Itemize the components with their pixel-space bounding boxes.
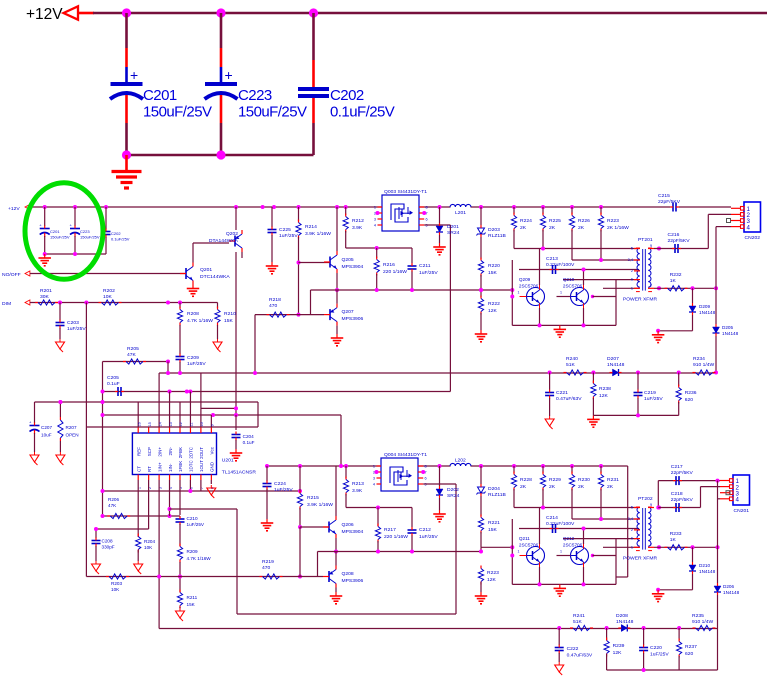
svg-text:R204: R204 [144,539,155,544]
svg-text:CT: CT [136,466,141,472]
svg-text:2K: 2K [607,484,614,490]
svg-text:150uF/25V: 150uF/25V [238,104,307,121]
svg-text:R205: R205 [127,346,139,352]
svg-text:22pF/5KV: 22pF/5KV [658,199,681,205]
svg-text:5: 5 [631,247,633,251]
svg-text:16: 16 [137,422,141,426]
svg-text:1OUT: 1OUT [199,460,204,472]
svg-text:620: 620 [685,651,694,657]
svg-text:Q211: Q211 [519,536,530,541]
svg-text:1: 1 [560,291,562,295]
svg-text:1DTC: 1DTC [189,460,194,472]
svg-text:D208: D208 [616,613,628,619]
svg-text:1: 1 [518,550,520,554]
svg-text:150uF/25V: 150uF/25V [50,235,70,240]
svg-text:1N4148: 1N4148 [699,310,716,315]
svg-text:3.9K: 3.9K [352,225,363,231]
svg-text:2: 2 [631,528,633,532]
svg-text:D207: D207 [607,356,619,362]
svg-text:DIM: DIM [2,301,11,307]
svg-text:6: 6 [425,477,427,481]
svg-text:RT: RT [147,466,152,472]
svg-text:10uF: 10uF [41,433,52,438]
svg-text:9: 9 [650,244,652,248]
svg-text:+: + [130,67,138,83]
svg-text:C219: C219 [644,390,656,396]
svg-text:9: 9 [650,503,652,507]
svg-text:7: 7 [650,284,652,288]
svg-text:1: 1 [560,550,562,554]
svg-text:R219: R219 [262,559,274,565]
svg-text:4.7K 1/16W: 4.7K 1/16W [187,318,213,324]
svg-text:R202: R202 [103,288,115,294]
svg-text:1N4148: 1N4148 [616,619,634,625]
svg-text:R215: R215 [307,495,319,501]
svg-text:D202: D202 [447,487,459,493]
svg-text:6: 6 [426,218,428,222]
svg-text:R231: R231 [607,477,619,483]
svg-text:1: 1 [374,206,376,210]
svg-text:R235: R235 [692,613,704,619]
svg-text:0.1uF/25V: 0.1uF/25V [111,237,130,242]
svg-text:NO/OFF: NO/OFF [2,272,21,278]
svg-text:D206: D206 [723,584,734,589]
svg-text:C217: C217 [671,464,683,470]
svg-text:R212: R212 [352,218,364,224]
svg-text:R218: R218 [269,297,281,303]
svg-text:1uF/25V: 1uF/25V [67,326,86,332]
svg-text:SCP: SCP [147,447,152,456]
svg-text:12K: 12K [488,308,498,314]
svg-text:R224: R224 [520,218,532,224]
svg-text:R238: R238 [599,386,611,392]
svg-text:C223: C223 [80,229,90,234]
svg-text:R214: R214 [305,224,317,230]
svg-text:R221: R221 [488,520,500,526]
svg-text:C208: C208 [102,539,113,544]
svg-text:R209: R209 [187,549,198,554]
svg-text:C205: C205 [107,375,119,381]
svg-text:MPS3906: MPS3906 [342,316,364,322]
svg-text:C215: C215 [658,193,670,199]
svg-text:12K: 12K [599,393,609,399]
svg-text:C202: C202 [330,87,364,104]
svg-text:1IN+: 1IN+ [157,462,162,472]
svg-text:2SC5706: 2SC5706 [563,284,583,289]
svg-text:C207: C207 [41,425,52,430]
svg-text:R203: R203 [111,581,122,586]
svg-text:PT202: PT202 [638,496,653,502]
svg-text:Q202: Q202 [226,231,238,237]
svg-text:R241: R241 [573,613,585,619]
svg-text:R206: R206 [108,497,119,502]
svg-text:7: 7 [650,543,652,547]
svg-text:MPS3904: MPS3904 [342,529,364,535]
svg-text:U201: U201 [222,457,234,463]
svg-text:12K: 12K [487,577,497,583]
svg-text:1: 1 [373,465,375,469]
svg-text:1K: 1K [670,278,677,284]
svg-text:1N4148: 1N4148 [699,569,716,574]
svg-text:470: 470 [269,303,278,309]
svg-text:L201: L201 [455,210,466,216]
svg-text:GND: GND [210,461,215,472]
svg-text:910 1/4W: 910 1/4W [692,619,714,625]
svg-text:15: 15 [148,422,152,426]
svg-text:22pF/5KV: 22pF/5KV [671,497,694,503]
svg-text:150uF/25V: 150uF/25V [143,104,212,121]
svg-text:RLZ11B: RLZ11B [488,233,506,239]
svg-text:2K: 2K [549,484,556,490]
svg-text:R239: R239 [613,643,625,649]
svg-text:1: 1 [631,286,633,290]
svg-text:R223: R223 [607,218,619,224]
svg-text:L202: L202 [455,458,466,464]
svg-text:Q003 SI4431DY-T1: Q003 SI4431DY-T1 [384,189,427,195]
svg-text:13: 13 [169,422,173,426]
svg-text:2IN+: 2IN+ [157,447,162,457]
svg-text:R240: R240 [566,356,578,362]
svg-text:3: 3 [373,477,375,481]
svg-text:1uF/25V: 1uF/25V [187,361,206,367]
svg-text:DTA144WKA: DTA144WKA [209,238,239,244]
svg-text:2SC5706: 2SC5706 [519,284,539,289]
svg-text:0.47uF/63V: 0.47uF/63V [567,653,593,659]
svg-text:C220: C220 [650,645,662,651]
svg-text:10: 10 [200,422,204,426]
svg-text:10K: 10K [103,294,113,300]
svg-text:3: 3 [374,218,376,222]
svg-text:D204: D204 [488,486,500,492]
svg-text:150uF/25V: 150uF/25V [80,235,100,240]
svg-text:1: 1 [631,545,633,549]
svg-text:15K: 15K [224,318,234,324]
svg-text:R201: R201 [40,288,52,294]
svg-text:11: 11 [190,423,194,427]
svg-text:4: 4 [374,224,377,228]
svg-text:Vcc: Vcc [210,446,215,454]
svg-text:C214: C214 [546,515,558,521]
svg-text:R236: R236 [685,390,697,396]
svg-text:0.47uF/63V: 0.47uF/63V [556,396,582,402]
svg-text:1K: 1K [670,537,677,543]
svg-text:1N4148: 1N4148 [723,590,740,595]
svg-text:1uF/25V: 1uF/25V [279,233,298,239]
svg-text:1N4148: 1N4148 [722,331,739,336]
svg-text:2SC5706: 2SC5706 [563,543,583,548]
svg-text:2FBK: 2FBK [178,447,183,458]
svg-text:2DTC: 2DTC [189,446,194,458]
svg-text:1uF/25V: 1uF/25V [419,270,438,276]
svg-text:C202: C202 [111,231,121,236]
svg-text:+: + [225,67,233,83]
svg-text:Q208: Q208 [342,571,354,577]
svg-text:R229: R229 [549,477,561,483]
svg-text:+: + [39,223,42,228]
svg-text:10K: 10K [144,545,153,550]
svg-text:330pF: 330pF [102,545,115,550]
svg-text:8: 8 [426,206,428,210]
svg-text:C224: C224 [274,481,286,487]
svg-text:PT201: PT201 [638,237,653,243]
svg-text:2K: 2K [520,484,527,490]
svg-text:0.1uF: 0.1uF [243,440,255,445]
svg-text:47K: 47K [127,352,137,358]
svg-text:4.7K 1/16W: 4.7K 1/16W [187,556,212,561]
svg-text:C210: C210 [187,516,198,521]
svg-text:2K: 2K [578,484,585,490]
svg-text:R233: R233 [670,531,682,537]
svg-text:Q207: Q207 [342,309,354,315]
svg-text:3.9K 1/16W: 3.9K 1/16W [307,502,333,508]
svg-text:D210: D210 [699,563,710,568]
svg-text:15K: 15K [488,527,498,533]
svg-text:Q205: Q205 [342,257,354,263]
svg-text:1uF/25V: 1uF/25V [187,522,205,527]
svg-text:9: 9 [211,424,215,426]
svg-text:8: 8 [425,465,427,469]
svg-text:15K: 15K [187,602,196,607]
svg-text:2: 2 [631,269,633,273]
svg-text:910 1/4W: 910 1/4W [693,362,715,368]
svg-text:3.9K 1/16W: 3.9K 1/16W [305,231,331,237]
svg-text:620: 620 [685,397,694,403]
svg-text:Q212: Q212 [563,536,575,541]
svg-text:D209: D209 [699,304,710,309]
svg-text:Q209: Q209 [519,277,531,282]
svg-text:0.22uF/100V: 0.22uF/100V [546,521,575,527]
svg-text:1uF/25V: 1uF/25V [419,534,438,540]
svg-text:C223: C223 [238,87,272,104]
svg-text:2IN-: 2IN- [168,446,173,455]
svg-text:220 1/16W: 220 1/16W [384,534,408,540]
svg-text:C218: C218 [671,491,683,497]
svg-text:R216: R216 [383,262,395,268]
svg-text:C222: C222 [567,646,579,652]
svg-text:R228: R228 [520,477,532,483]
svg-text:4: 4 [736,497,740,504]
svg-text:C213: C213 [546,256,558,262]
svg-text:+12V: +12V [8,206,20,212]
svg-text:22pF/5KV: 22pF/5KV [668,238,691,244]
svg-text:MPS3906: MPS3906 [342,578,364,584]
svg-text:1FBK: 1FBK [178,461,183,472]
svg-text:0.1uF/25V: 0.1uF/25V [330,104,395,121]
svg-text:R225: R225 [549,218,561,224]
svg-text:2K: 2K [549,225,556,231]
svg-text:CN202: CN202 [745,235,761,241]
svg-text:3,4: 3,4 [628,517,634,521]
svg-text:C225: C225 [279,227,291,233]
svg-text:R234: R234 [693,356,705,362]
svg-text:6: 6 [631,537,633,541]
svg-text:220 1/16W: 220 1/16W [383,269,407,275]
svg-text:R226: R226 [578,218,590,224]
svg-text:C204: C204 [243,434,254,439]
svg-text:SR24: SR24 [447,230,460,236]
svg-text:C211: C211 [419,263,431,269]
svg-text:10K: 10K [111,587,120,592]
svg-text:0.1uF: 0.1uF [107,381,120,387]
svg-text:+12V: +12V [26,6,63,23]
svg-text:R211: R211 [187,595,198,600]
svg-text:Q201: Q201 [200,267,212,273]
svg-text:2K 1/16W: 2K 1/16W [607,225,629,231]
svg-text:+: + [70,223,73,228]
svg-text:C212: C212 [419,527,431,533]
svg-text:TL1451ACNSR: TL1451ACNSR [222,470,257,476]
svg-text:12: 12 [179,422,183,426]
svg-text:R223: R223 [487,570,499,576]
svg-text:51K: 51K [573,619,583,625]
svg-text:R237: R237 [685,644,697,650]
svg-text:Q004 SI4431DY-T1: Q004 SI4431DY-T1 [384,452,427,458]
svg-text:D203: D203 [488,227,500,233]
svg-text:2SC5706: 2SC5706 [519,543,539,548]
svg-text:RLZ11B: RLZ11B [488,492,506,498]
svg-text:3,4: 3,4 [628,258,634,262]
svg-text:30K: 30K [40,294,50,300]
svg-text:REF: REF [136,447,141,456]
svg-text:DTC144WKA: DTC144WKA [200,274,230,280]
svg-text:MPS3904: MPS3904 [342,264,364,270]
svg-text:0.22uF/100V: 0.22uF/100V [546,262,575,268]
svg-text:R213: R213 [352,481,364,487]
svg-text:+: + [29,420,32,425]
svg-text:2K: 2K [520,225,527,231]
svg-text:C201: C201 [143,87,177,104]
svg-text:2OUT: 2OUT [199,447,204,459]
svg-text:1: 1 [518,291,520,295]
svg-text:Q210: Q210 [563,277,575,282]
svg-text:R220: R220 [488,263,500,269]
svg-text:D201: D201 [447,224,459,230]
svg-text:5: 5 [631,506,633,510]
svg-text:2K: 2K [578,225,585,231]
svg-text:R222: R222 [488,301,500,307]
svg-text:C203: C203 [67,320,79,326]
svg-text:R230: R230 [578,477,590,483]
svg-text:1N4148: 1N4148 [607,362,625,368]
svg-text:51K: 51K [566,362,576,368]
svg-text:6: 6 [631,278,633,282]
svg-text:470: 470 [262,565,271,571]
svg-text:C209: C209 [187,355,199,361]
svg-text:R208: R208 [187,311,199,317]
svg-text:POWER XFMR: POWER XFMR [623,556,658,562]
svg-text:1IN-: 1IN- [168,463,173,472]
svg-text:R217: R217 [384,527,396,533]
svg-text:12K: 12K [613,650,623,656]
svg-text:C221: C221 [556,390,568,396]
svg-text:47K: 47K [108,503,117,508]
svg-text:OPEN: OPEN [66,433,79,438]
svg-text:4: 4 [373,483,376,487]
svg-text:1uF/25V: 1uF/25V [650,652,669,658]
svg-text:3.9K: 3.9K [352,488,363,494]
svg-text:R232: R232 [670,272,682,278]
svg-text:Q206: Q206 [342,522,354,528]
svg-text:SR24: SR24 [447,493,460,499]
svg-text:4: 4 [747,224,751,231]
svg-text:R210: R210 [224,311,236,317]
svg-text:POWER XFMR: POWER XFMR [623,297,658,303]
svg-text:D205: D205 [722,325,733,330]
svg-text:CN201: CN201 [734,508,750,514]
svg-text:22pF/5KV: 22pF/5KV [671,470,694,476]
svg-text:15K: 15K [488,270,498,276]
svg-text:1uF/25V: 1uF/25V [644,396,663,402]
svg-text:1uF/25V: 1uF/25V [274,487,293,493]
svg-text:C201: C201 [50,229,60,234]
svg-text:R207: R207 [66,425,77,430]
svg-text:C216: C216 [668,232,680,238]
